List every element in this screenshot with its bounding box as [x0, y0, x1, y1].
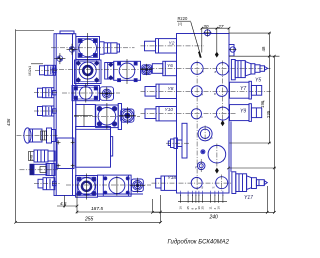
- svg-text:M12x1: M12x1: [28, 66, 32, 76]
- svg-text:Y18: Y18: [168, 175, 177, 181]
- svg-text:Y7: Y7: [240, 86, 246, 92]
- svg-text:235: 235: [266, 110, 271, 118]
- svg-text:B: B: [214, 92, 216, 96]
- svg-text:255: 255: [84, 216, 94, 222]
- svg-text:P: P: [195, 166, 197, 170]
- svg-text:B: B: [215, 115, 217, 119]
- svg-text:25: 25: [200, 206, 204, 210]
- svg-text:Y6: Y6: [167, 63, 173, 69]
- svg-text:H: H: [213, 185, 215, 189]
- svg-text:24B: 24B: [30, 155, 34, 161]
- svg-text:48: 48: [261, 46, 266, 51]
- svg-text:16: 16: [217, 206, 221, 210]
- svg-text:Y17: Y17: [244, 195, 253, 201]
- svg-text:B: B: [215, 70, 217, 74]
- svg-text:11: 11: [208, 206, 212, 209]
- svg-text:196: 196: [260, 100, 265, 108]
- svg-text:A: A: [200, 115, 203, 119]
- svg-text:A: A: [201, 70, 204, 74]
- svg-text:Гидроблок БСК40МА2: Гидроблок БСК40МА2: [168, 240, 230, 246]
- svg-text:187.5: 187.5: [91, 206, 103, 212]
- svg-text:B: B: [202, 186, 204, 190]
- svg-text:Y10: Y10: [165, 107, 174, 113]
- svg-text:C: C: [211, 136, 213, 140]
- svg-text:25: 25: [186, 206, 190, 210]
- svg-text:240: 240: [209, 214, 219, 220]
- svg-text:Y5: Y5: [255, 77, 261, 83]
- svg-text:4.5: 4.5: [60, 201, 67, 206]
- svg-text:A: A: [201, 92, 204, 96]
- svg-text:436: 436: [6, 118, 11, 126]
- svg-text:(√): (√): [178, 22, 182, 26]
- svg-text:Rz20: Rz20: [178, 16, 188, 21]
- svg-text:Y9: Y9: [240, 108, 246, 114]
- svg-text:16: 16: [179, 206, 183, 210]
